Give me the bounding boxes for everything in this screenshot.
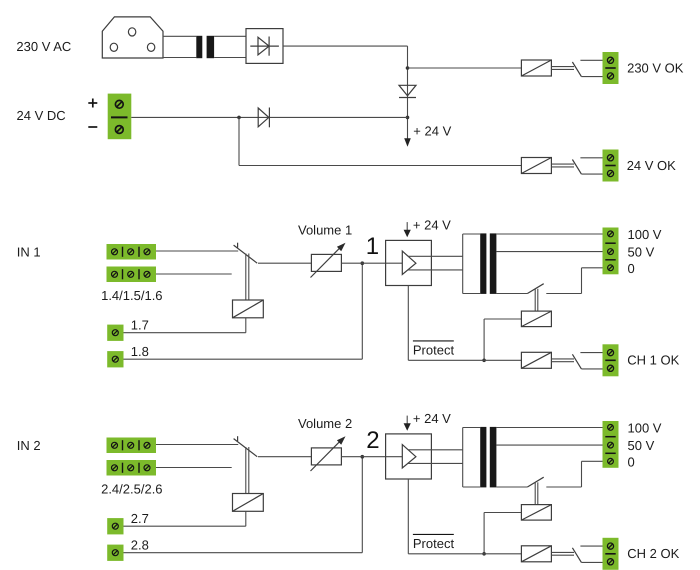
svg-text:1.8: 1.8 <box>131 344 149 359</box>
svg-text:Protect: Protect <box>413 342 455 357</box>
svg-text:230 V AC: 230 V AC <box>16 39 71 54</box>
svg-text:100 V: 100 V <box>628 421 662 436</box>
svg-text:+ 24 V: + 24 V <box>413 218 451 233</box>
svg-text:230 V OK: 230 V OK <box>627 61 684 76</box>
svg-text:1.4/1.5/1.6: 1.4/1.5/1.6 <box>101 288 162 303</box>
svg-text:2.4/2.5/2.6: 2.4/2.5/2.6 <box>101 482 162 497</box>
svg-text:2.7: 2.7 <box>131 511 149 526</box>
svg-text:+ 24 V: + 24 V <box>413 124 451 139</box>
svg-text:CH 2 OK: CH 2 OK <box>627 546 679 561</box>
svg-text:0: 0 <box>628 261 635 276</box>
svg-text:CH 1 OK: CH 1 OK <box>627 353 679 368</box>
svg-text:0: 0 <box>628 454 635 469</box>
svg-text:IN 2: IN 2 <box>17 438 41 453</box>
svg-text:IN 1: IN 1 <box>17 244 41 259</box>
svg-text:2: 2 <box>366 427 379 454</box>
svg-text:24 V OK: 24 V OK <box>627 158 676 173</box>
svg-text:Protect: Protect <box>413 536 455 551</box>
svg-text:1.7: 1.7 <box>131 318 149 333</box>
svg-text:Volume 2: Volume 2 <box>298 416 352 431</box>
svg-text:+ 24 V: + 24 V <box>413 411 451 426</box>
svg-text:50 V: 50 V <box>628 438 655 453</box>
svg-text:2.8: 2.8 <box>131 538 149 553</box>
svg-text:50 V: 50 V <box>628 245 655 260</box>
svg-text:100 V: 100 V <box>628 227 662 242</box>
svg-text:Volume 1: Volume 1 <box>298 223 352 238</box>
svg-text:1: 1 <box>366 233 379 260</box>
svg-text:24 V DC: 24 V DC <box>17 108 66 123</box>
